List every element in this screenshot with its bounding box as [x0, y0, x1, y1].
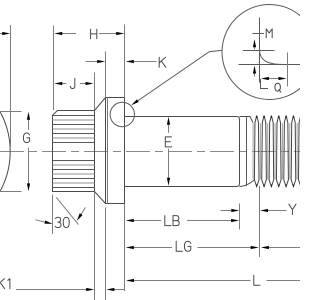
- thread teeth: [254, 116, 300, 187]
- extension line flange left top: [105, 52, 107, 98]
- thread runout line: [246, 117, 248, 187]
- 30 degree arrow right: [77, 207, 86, 221]
- knurl lines: [53, 116, 95, 188]
- extension line thread runout end: [259, 186, 261, 257]
- dimension G: [23, 112, 30, 191]
- dimension Y: [221, 204, 296, 214]
- M arrow lower: [253, 66, 256, 77]
- extension line head left face: [53, 26, 55, 111]
- shank top edge: [125, 117, 240, 120]
- dimension K: [86, 57, 166, 67]
- thread runout bottom: [240, 180, 255, 187]
- extension line far left: [10, 25, 12, 147]
- Q right extension line: [287, 53, 289, 87]
- flange face line: [107, 98, 109, 204]
- extension line head right face top: [94, 73, 96, 111]
- dimension E: [165, 117, 171, 186]
- label 30: [55, 217, 69, 227]
- small detail circle: [110, 102, 134, 126]
- dimension H: [54, 29, 124, 38]
- M arrow upper: [253, 39, 256, 49]
- dimension L: [126, 275, 300, 285]
- head side arc: [0, 112, 10, 192]
- extension line head right face bottom: [94, 192, 96, 300]
- shank bottom edge: [125, 184, 240, 187]
- centerline: [0, 151, 300, 153]
- thread crest dark tips: [256, 115, 302, 187]
- M reference tick: [253, 33, 265, 35]
- dimension J: [54, 79, 93, 89]
- head outline: [53, 111, 95, 192]
- 30 degree arrow left: [36, 220, 53, 224]
- flange outline: [106, 98, 125, 204]
- extension line flange right top: [124, 25, 126, 98]
- cone transition bottom: [95, 192, 106, 204]
- extension line flange right bottom: [124, 204, 126, 292]
- extension line thread start: [239, 204, 241, 230]
- G extension line bottom: [0, 191, 22, 193]
- detail vertical face line: [259, 18, 261, 83]
- thread root lines: [253, 123, 297, 179]
- extension line flange left bottom: [105, 208, 107, 300]
- thread runout top: [240, 117, 254, 123]
- cone transition top: [95, 98, 106, 111]
- dimension LB: [126, 216, 239, 226]
- fillet curve: [260, 51, 284, 65]
- G extension line top: [0, 111, 22, 113]
- detail corner hook: [261, 79, 269, 89]
- dimension K1: [0, 279, 125, 291]
- 30 degree extension vertical: [52, 195, 54, 235]
- detail leader arrow: [131, 50, 222, 105]
- 30 degree extension diagonal: [56, 197, 78, 224]
- shank end line: [239, 120, 241, 184]
- dimension LG: [126, 241, 259, 251]
- big detail circle: [222, 5, 317, 100]
- fillet top line: [243, 50, 275, 52]
- detail bearing line: [239, 64, 301, 66]
- thread length arrow at LG row: [261, 246, 300, 249]
- label M: [266, 29, 272, 38]
- dimension row top-left outside arrow: [0, 32, 10, 35]
- dimension Q: [261, 77, 287, 92]
